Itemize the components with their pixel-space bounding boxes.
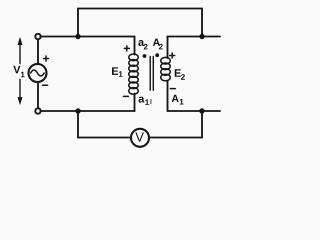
plus E2 <box>170 53 175 58</box>
wire bottom-right horizontal <box>168 110 221 112</box>
wire voltmeter loop right <box>149 111 202 138</box>
label A2 <box>153 39 163 50</box>
dot a2 polarity <box>143 54 147 58</box>
core stray mark <box>150 100 152 104</box>
node bottom-left terminal <box>35 108 40 113</box>
wire top-left horizontal <box>40 36 134 38</box>
wire top-right horizontal <box>168 36 221 38</box>
plus source <box>44 56 49 61</box>
voltmeter <box>131 129 149 147</box>
label E1 <box>112 67 123 76</box>
node top-left terminal <box>35 34 40 39</box>
label V meter <box>135 133 144 142</box>
wire secondary bottom lead <box>167 81 169 112</box>
wire bottom-left horizontal <box>40 110 134 112</box>
wire top bridge <box>78 9 202 38</box>
wire source bottom <box>37 82 39 109</box>
winding E1 primary coil <box>129 54 139 94</box>
minus E1 <box>123 95 128 97</box>
junction bridge-right <box>199 34 204 39</box>
dot A2 polarity <box>155 53 159 57</box>
label a2 <box>138 40 147 49</box>
plus E1 <box>124 46 129 51</box>
junction bridge-left <box>75 34 80 39</box>
junction bottom-left <box>75 108 80 113</box>
source V1 AC <box>29 64 47 82</box>
label A1 <box>172 95 184 105</box>
label E2 <box>175 69 185 79</box>
core line right <box>152 57 154 91</box>
wire primary bottom lead <box>134 94 136 112</box>
wire secondary top lead <box>167 37 169 59</box>
wire source top <box>37 39 39 64</box>
minus source <box>43 84 48 86</box>
label V1 <box>13 66 24 78</box>
wire primary top lead <box>134 37 136 55</box>
wire voltmeter loop left <box>78 111 131 138</box>
junction bottom-right <box>199 108 204 113</box>
sine wave <box>31 70 45 76</box>
winding E2 secondary coil <box>161 57 171 80</box>
minus E2 <box>170 88 175 90</box>
voltage arrow V1 <box>18 37 23 105</box>
core line left <box>149 57 151 91</box>
label a1 <box>139 97 150 105</box>
